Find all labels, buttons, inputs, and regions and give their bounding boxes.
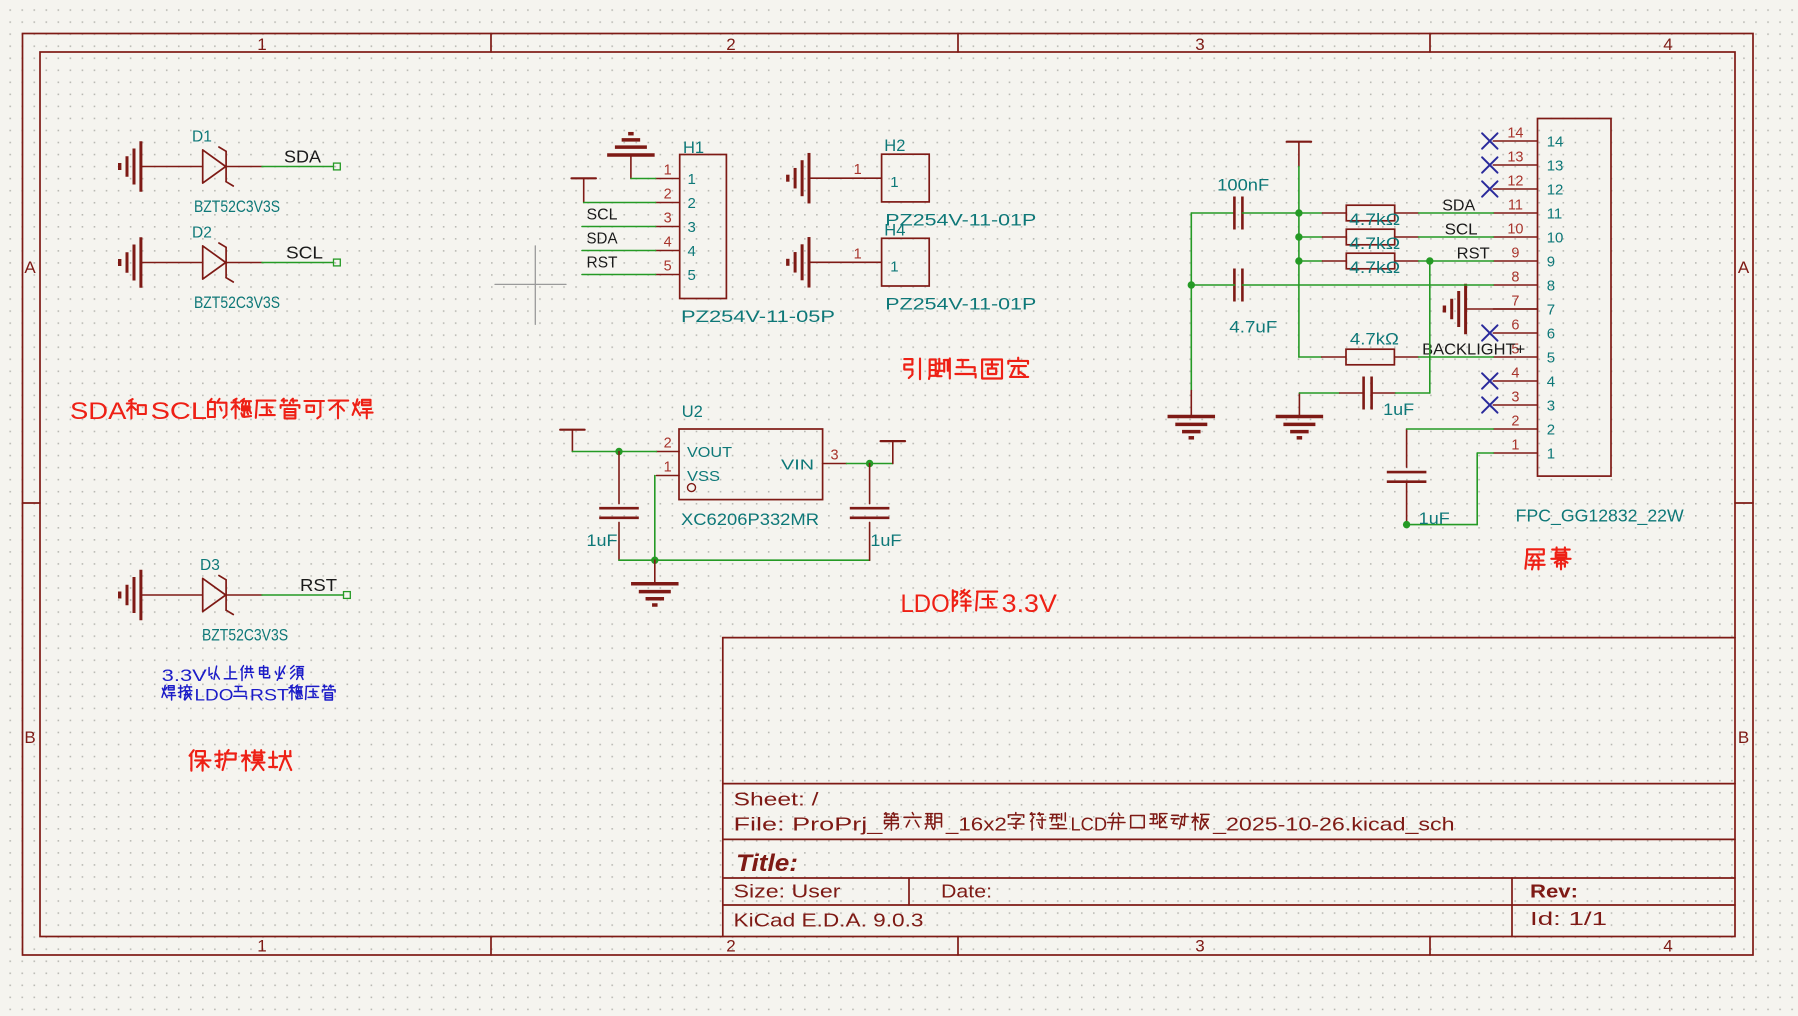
svg-text:4.7kΩ: 4.7kΩ xyxy=(1349,211,1400,229)
svg-text:4: 4 xyxy=(664,235,672,251)
svg-text:SCL: SCL xyxy=(151,398,207,425)
svg-text:Title:: Title: xyxy=(736,850,798,877)
svg-text:9: 9 xyxy=(1547,254,1555,271)
svg-text:13: 13 xyxy=(1507,149,1523,165)
svg-text:H4: H4 xyxy=(884,221,905,239)
svg-text:SDA: SDA xyxy=(284,146,321,166)
svg-text:RST: RST xyxy=(1457,246,1490,263)
svg-text:1: 1 xyxy=(890,258,898,275)
svg-text:Id: 1/1: Id: 1/1 xyxy=(1530,909,1607,929)
svg-text:3: 3 xyxy=(688,219,696,236)
svg-text:A: A xyxy=(24,258,36,277)
svg-text:3: 3 xyxy=(1511,389,1519,405)
svg-text:8: 8 xyxy=(1511,269,1519,285)
svg-text:PZ254V-11-01P: PZ254V-11-01P xyxy=(885,295,1036,314)
svg-text:D3: D3 xyxy=(200,557,220,574)
svg-text:3: 3 xyxy=(1195,937,1204,956)
svg-text:1uF: 1uF xyxy=(1383,401,1414,419)
svg-text:PZ254V-11-01P: PZ254V-11-01P xyxy=(885,211,1036,230)
svg-text:SCL: SCL xyxy=(587,207,618,224)
svg-text:SCL: SCL xyxy=(286,242,323,262)
svg-text:6: 6 xyxy=(1511,317,1519,333)
svg-text:Size: User: Size: User xyxy=(734,882,841,902)
svg-text:4: 4 xyxy=(688,243,696,260)
svg-text:1: 1 xyxy=(664,460,672,476)
svg-text:4: 4 xyxy=(1547,374,1555,391)
svg-text:SDA: SDA xyxy=(1442,198,1475,215)
svg-text:1: 1 xyxy=(1547,446,1555,463)
svg-text:4.7uF: 4.7uF xyxy=(1229,319,1277,337)
svg-text:BZT52C3V3S: BZT52C3V3S xyxy=(202,627,288,645)
svg-text:1: 1 xyxy=(257,35,266,54)
svg-text:3: 3 xyxy=(830,448,838,464)
svg-text:1uF: 1uF xyxy=(870,532,901,550)
svg-text:8: 8 xyxy=(1547,278,1555,295)
svg-text:7: 7 xyxy=(1511,293,1519,309)
svg-text:Rev:: Rev: xyxy=(1530,881,1578,902)
svg-text:LDO: LDO xyxy=(195,685,234,704)
svg-text:4.7kΩ: 4.7kΩ xyxy=(1350,331,1399,349)
svg-text:11: 11 xyxy=(1547,206,1563,223)
svg-text:File: ProPrj_: File: ProPrj_ xyxy=(734,815,884,836)
svg-text:D1: D1 xyxy=(192,129,212,146)
svg-text:13: 13 xyxy=(1547,158,1564,175)
svg-text:14: 14 xyxy=(1547,134,1564,151)
svg-text:10: 10 xyxy=(1507,221,1523,237)
svg-text:2: 2 xyxy=(726,937,735,956)
svg-text:2: 2 xyxy=(664,187,672,203)
svg-text:BZT52C3V3S: BZT52C3V3S xyxy=(194,198,280,216)
svg-text:Sheet: /: Sheet: / xyxy=(734,790,819,810)
svg-text:6: 6 xyxy=(1547,326,1555,343)
svg-text:FPC_GG12832_22W: FPC_GG12832_22W xyxy=(1516,506,1684,527)
svg-text:SDA: SDA xyxy=(70,398,126,425)
svg-text:B: B xyxy=(24,728,35,747)
svg-text:1: 1 xyxy=(1511,437,1519,453)
svg-text:10: 10 xyxy=(1547,230,1564,247)
svg-text:B: B xyxy=(1738,728,1749,747)
svg-text:1: 1 xyxy=(854,162,862,178)
svg-text:1uF: 1uF xyxy=(1419,510,1450,528)
svg-text:11: 11 xyxy=(1508,197,1523,213)
svg-text:H1: H1 xyxy=(683,139,704,157)
svg-text:7: 7 xyxy=(1547,302,1555,319)
svg-text:1: 1 xyxy=(664,163,672,179)
svg-text:3.3V: 3.3V xyxy=(162,666,208,685)
svg-text:1: 1 xyxy=(854,246,862,262)
svg-text:LDO: LDO xyxy=(901,590,950,618)
svg-text:SDA: SDA xyxy=(587,231,619,248)
svg-text:_16x2: _16x2 xyxy=(945,815,1007,836)
svg-text:12: 12 xyxy=(1507,173,1523,189)
svg-text:4.7kΩ: 4.7kΩ xyxy=(1349,259,1400,277)
svg-text:D2: D2 xyxy=(192,225,212,242)
svg-text:3: 3 xyxy=(1195,35,1204,54)
svg-text:1: 1 xyxy=(688,171,696,188)
svg-text:RST: RST xyxy=(300,575,337,595)
svg-text:XC6206P332MR: XC6206P332MR xyxy=(681,510,819,529)
svg-text:VIN: VIN xyxy=(781,457,814,474)
svg-text:2: 2 xyxy=(726,35,735,54)
svg-text:KiCad E.D.A. 9.0.3: KiCad E.D.A. 9.0.3 xyxy=(734,911,924,931)
svg-text:12: 12 xyxy=(1547,182,1564,199)
svg-text:5: 5 xyxy=(1547,350,1555,367)
svg-text:100nF: 100nF xyxy=(1217,177,1269,195)
svg-text:4: 4 xyxy=(1663,937,1672,956)
svg-text:LCD: LCD xyxy=(1071,815,1108,835)
svg-text:2: 2 xyxy=(1511,413,1519,429)
svg-text:1: 1 xyxy=(257,937,266,956)
svg-text:VOUT: VOUT xyxy=(687,444,732,461)
svg-text:2: 2 xyxy=(688,195,696,212)
svg-text:_2025-10-26.kicad_sch: _2025-10-26.kicad_sch xyxy=(1212,815,1455,836)
svg-text:H2: H2 xyxy=(884,137,905,155)
svg-text:1: 1 xyxy=(890,174,898,191)
svg-text:BZT52C3V3S: BZT52C3V3S xyxy=(194,294,280,312)
svg-text:4: 4 xyxy=(1511,365,1519,381)
svg-text:4: 4 xyxy=(1663,35,1672,54)
svg-text:4.7kΩ: 4.7kΩ xyxy=(1349,235,1400,253)
svg-text:SCL: SCL xyxy=(1445,222,1478,239)
svg-text:3: 3 xyxy=(1547,398,1555,415)
svg-text:5: 5 xyxy=(664,259,672,275)
svg-text:1uF: 1uF xyxy=(587,532,618,550)
svg-text:2: 2 xyxy=(664,436,672,452)
svg-text:Date:: Date: xyxy=(941,882,992,902)
svg-text:3: 3 xyxy=(664,211,672,227)
svg-text:RST: RST xyxy=(587,255,619,272)
svg-text:A: A xyxy=(1738,258,1750,277)
svg-text:5: 5 xyxy=(688,267,696,284)
svg-text:14: 14 xyxy=(1507,125,1523,141)
svg-text:U2: U2 xyxy=(682,403,703,421)
svg-text:3.3V: 3.3V xyxy=(1002,590,1058,618)
svg-text:BACKLIGHT+: BACKLIGHT+ xyxy=(1422,341,1525,358)
svg-text:RST: RST xyxy=(250,685,289,704)
svg-text:2: 2 xyxy=(1547,422,1555,439)
svg-text:VSS: VSS xyxy=(687,468,720,485)
svg-text:9: 9 xyxy=(1511,245,1519,261)
svg-text:PZ254V-11-05P: PZ254V-11-05P xyxy=(681,307,835,326)
